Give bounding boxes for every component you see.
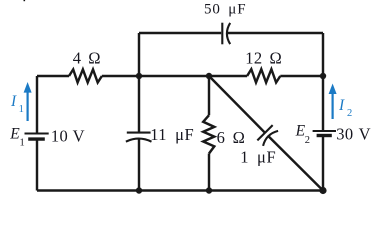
battery E2 plates — [313, 131, 336, 136]
svg-text:30 V: 30 V — [336, 125, 371, 144]
wire right vertical upper — [322, 33, 324, 130]
svg-text:11 μF: 11 μF — [150, 125, 194, 144]
capacitor C2 11uF plates — [126, 133, 152, 142]
wire right vertical lower — [322, 136, 324, 190]
wire middle vertical x139 upper — [138, 33, 140, 132]
svg-text:4 Ω: 4 Ω — [73, 48, 101, 67]
node junction dot x323 bottom — [319, 187, 326, 194]
wire 6ohm branch upper — [208, 76, 210, 115]
wire diagonal upper (1uF branch) — [209, 76, 265, 133]
svg-text:12 Ω: 12 Ω — [245, 49, 282, 68]
battery E1 plates — [25, 134, 49, 140]
capacitor C3 1uF plates (on diagonal) — [257, 125, 278, 146]
node junction dot x209 main — [206, 73, 212, 79]
svg-text:6 Ω: 6 Ω — [217, 128, 246, 147]
wire left vertical upper — [36, 76, 38, 133]
wire top left horizontal — [139, 32, 221, 34]
capacitor C1 50uF plates — [222, 23, 230, 45]
node junction dot x139 main — [136, 73, 142, 79]
wire left vertical lower — [36, 140, 38, 190]
svg-text:I: I — [338, 97, 345, 114]
resistor R1 4ohm — [69, 69, 102, 82]
svg-text:1: 1 — [20, 138, 25, 149]
resistor R2 12ohm — [247, 69, 280, 82]
wire main horizontal left segment — [37, 75, 69, 77]
resistor R3 6ohm — [203, 115, 214, 153]
wire top right horizontal — [227, 32, 323, 34]
wire main horizontal right segment — [280, 75, 323, 77]
svg-text:2: 2 — [305, 135, 310, 146]
svg-text:1: 1 — [19, 104, 24, 115]
wire 6ohm branch lower — [208, 154, 210, 191]
current arrow I2 — [329, 84, 337, 120]
stray mark top edge — [24, 0, 26, 1]
wire middle vertical x139 lower — [138, 139, 140, 191]
node junction dot x323 main — [320, 73, 326, 79]
node junction dot x139 bottom — [136, 187, 142, 193]
svg-text:1 μF: 1 μF — [240, 148, 276, 167]
wire main horizontal middle segment — [102, 75, 247, 77]
current arrow I1 — [24, 82, 32, 121]
node junction dot x209 bottom — [206, 187, 212, 193]
svg-text:I: I — [10, 93, 17, 110]
svg-text:10 V: 10 V — [51, 126, 85, 145]
svg-text:2: 2 — [347, 108, 352, 119]
wire bottom horizontal — [37, 189, 323, 191]
svg-text:50 μF: 50 μF — [204, 1, 246, 17]
wire diagonal lower (1uF branch) — [269, 136, 323, 190]
